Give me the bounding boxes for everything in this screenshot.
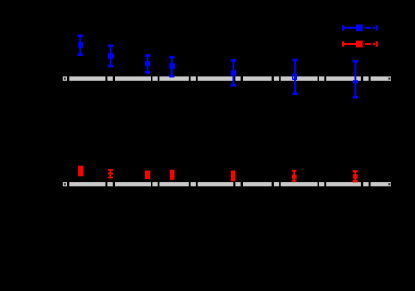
red data point 5 (merged marker+caps) [231, 171, 235, 182]
red data point 6 with error bars [292, 170, 297, 182]
blue data point 4 with error bars [169, 56, 175, 78]
legend sample: blue series [342, 24, 378, 31]
red data point 7 with error bars [353, 170, 358, 182]
top band right tick notch [388, 78, 390, 80]
red data point 4 (merged marker+caps) [170, 170, 175, 180]
blue data point 7 with error bars [353, 60, 358, 98]
blue data point 2 with error bars [108, 45, 114, 68]
blue data point 6 with error bars [292, 59, 297, 95]
blue data point 1 with error bars [78, 34, 84, 56]
top dashed gray band at ratio=1 [63, 76, 391, 80]
legend sample: red series [342, 41, 378, 48]
bottom band right tick notch [388, 183, 390, 185]
red data point 3 (merged marker+caps) [145, 171, 150, 180]
blue data point 3 with error bars [145, 54, 150, 73]
top band left tick notch [64, 78, 66, 80]
red data point 2 with error bars [108, 169, 113, 178]
blue data point 5 with error bars [231, 59, 236, 86]
bottom band left tick notch [64, 183, 66, 185]
bottom dashed gray band at ratio=1 [63, 182, 391, 186]
red data point 1 (merged marker+caps) [78, 166, 83, 177]
